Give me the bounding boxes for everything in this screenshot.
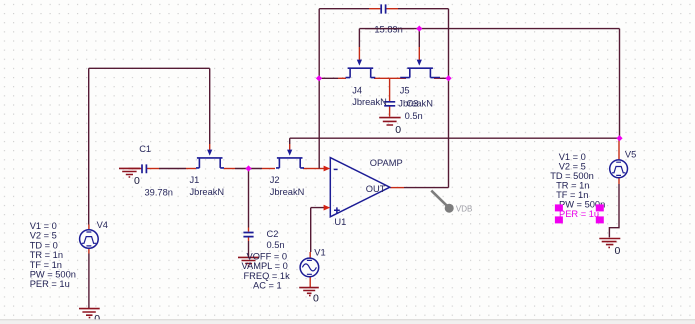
params V5 (550, 152, 605, 210)
wire V5 to ground (609, 184, 619, 237)
svg-text:PW = 500n: PW = 500n (30, 270, 76, 280)
wire J1 gate vertical (209, 68, 211, 144)
svg-text:V1 = 0: V1 = 0 (30, 221, 57, 231)
wire op-amp plus feed (311, 208, 324, 252)
svg-text:TR = 1n: TR = 1n (30, 250, 63, 260)
wire V5 vertical from gates net (619, 29, 621, 139)
pin V5 bottom (618, 178, 620, 184)
svg-text:TD = 500n: TD = 500n (550, 171, 594, 181)
svg-text:0: 0 (313, 293, 319, 305)
wire J2 drain to op-amp minus (313, 168, 324, 170)
wire J2 gate vertical (289, 138, 291, 144)
svg-text:AC = 1: AC = 1 (253, 281, 282, 291)
wire J5 gate vertical (418, 29, 420, 47)
svg-text:JbreakN: JbreakN (352, 97, 387, 107)
svg-text:15.89n: 15.89n (374, 25, 402, 35)
svg-text:J2: J2 (270, 175, 280, 185)
svg-text:TF = 1n: TF = 1n (556, 190, 588, 200)
svg-text:OPAMP: OPAMP (370, 158, 403, 168)
svg-text:J4: J4 (352, 86, 362, 96)
wire V4 to ground (88, 254, 90, 309)
wire C2 to ground (248, 241, 250, 257)
wire J1 to J2 (235, 168, 262, 170)
pin J2 source (262, 168, 275, 170)
wire top-left horizontal (89, 67, 210, 69)
wire feedback vertical right (448, 9, 450, 188)
pin rail J4 drain / J5 source (374, 77, 406, 79)
svg-text:FREQ = 1k: FREQ = 1k (244, 271, 291, 281)
wire J4 left pin to node (319, 77, 338, 79)
pin C2 bottom (248, 237, 250, 241)
svg-text:C2: C2 (267, 229, 279, 239)
selected param PER = 1u (555, 204, 604, 223)
wire J4 gate vertical (358, 29, 360, 47)
wire gates horizontal (359, 28, 619, 30)
transistor J1 (196, 158, 224, 168)
capacitor C1 (142, 164, 146, 173)
pin J5 gate (418, 47, 420, 61)
source V4 (80, 230, 99, 249)
wire V4 top pin (88, 225, 90, 230)
ground V4 (79, 309, 100, 318)
wire left vertical to V4 (88, 68, 90, 224)
svg-text:TR = 1n: TR = 1n (556, 181, 589, 191)
window bottom strip (0, 320, 695, 324)
svg-text:C1: C1 (139, 144, 151, 154)
svg-text:0.5n: 0.5n (405, 111, 423, 121)
ground C2 (238, 257, 259, 266)
svg-text:VDB: VDB (456, 205, 472, 214)
pin C4 right (386, 8, 398, 10)
pin C1 right (147, 168, 159, 170)
transistor J4 (346, 68, 376, 77)
svg-text:TF = 1n: TF = 1n (30, 260, 62, 270)
svg-text:V5: V5 (625, 149, 636, 159)
probe VDB (431, 191, 472, 214)
pin V1 top (309, 252, 311, 258)
wire top horizontal right of C4 (398, 8, 449, 10)
svg-text:39.78n: 39.78n (145, 188, 173, 198)
svg-text:VOFF = 0: VOFF = 0 (247, 251, 288, 261)
pin J1 gate (209, 144, 211, 151)
params V4 (30, 221, 76, 289)
ground V1 (299, 288, 319, 296)
svg-text:V2 = 5: V2 = 5 (30, 231, 57, 241)
pin J1 source (186, 168, 196, 170)
pin J2 drain (303, 168, 313, 170)
svg-text:TD = 0: TD = 0 (30, 240, 58, 250)
svg-text:0: 0 (615, 245, 621, 257)
svg-text:U1: U1 (334, 217, 346, 227)
pin C3 bottom to ground (389, 106, 391, 116)
pin op-amp plus arrow (324, 205, 331, 211)
transistor J5 (400, 68, 440, 77)
wire top horizontal left of C4 (319, 8, 369, 10)
node junction J4 source net (316, 75, 322, 81)
svg-text:VAMPL = 0: VAMPL = 0 (242, 261, 288, 271)
svg-text:J1: J1 (190, 175, 200, 185)
pin J4 source (338, 77, 346, 79)
wire V4 bottom pin (88, 248, 90, 253)
node junction J5 drain net (445, 75, 451, 81)
pin C4 left (369, 8, 380, 10)
pin C3 top (389, 78, 391, 101)
pin J4 gate (358, 47, 360, 61)
svg-text:PER = 1u: PER = 1u (30, 279, 70, 289)
pin C1 left (129, 168, 142, 170)
svg-text:V1: V1 (314, 247, 325, 257)
transistor J2 (276, 158, 304, 168)
pin op-amp minus arrow (324, 166, 331, 172)
svg-text:JbreakN: JbreakN (190, 187, 225, 197)
pin J1 drain (224, 168, 235, 170)
svg-text:V1 = 0: V1 = 0 (559, 152, 586, 162)
pin op-amp output (390, 187, 404, 189)
svg-text:C3: C3 (407, 98, 419, 108)
node junction C2 tap (245, 165, 251, 171)
capacitor C2 (243, 233, 253, 237)
wire J5 drain to feedback (440, 77, 449, 79)
ground C1 (119, 168, 140, 177)
pin V1 bottom (309, 277, 311, 287)
wire overlay across value (365, 28, 414, 30)
params V1 (242, 251, 291, 290)
pin V5 top (618, 138, 620, 160)
svg-text:OUT: OUT (366, 184, 386, 194)
svg-text:0: 0 (134, 175, 140, 187)
wire C1 to J1 (159, 168, 186, 170)
pin J2 gate (289, 144, 291, 151)
node junction V5 top (616, 135, 622, 141)
wire output to feedback (404, 187, 449, 189)
svg-text:V4: V4 (97, 220, 108, 230)
ground C3 mid (379, 118, 400, 125)
wire long horizontal J2 gate to V5 (290, 137, 620, 139)
capacitor C4 15.89n top (381, 4, 385, 13)
pin J5 drain (434, 77, 440, 79)
wire feedback vertical left (318, 9, 320, 169)
ground V5 (599, 239, 620, 248)
source V1 (300, 258, 319, 277)
node junction J5 gate (416, 25, 422, 31)
pin C2 top (248, 228, 250, 232)
source V5 (610, 160, 628, 178)
wire node A down to C2 (248, 169, 250, 228)
op-amp U1 (330, 158, 390, 217)
capacitor C3 mid (384, 102, 395, 106)
svg-text:V2 = 5: V2 = 5 (559, 162, 586, 172)
svg-text:JbreakN: JbreakN (270, 187, 305, 197)
svg-text:0: 0 (395, 124, 401, 136)
svg-text:PER = 1u: PER = 1u (559, 209, 599, 219)
svg-text:0.5n: 0.5n (267, 240, 285, 250)
svg-text:J5: J5 (400, 86, 410, 96)
